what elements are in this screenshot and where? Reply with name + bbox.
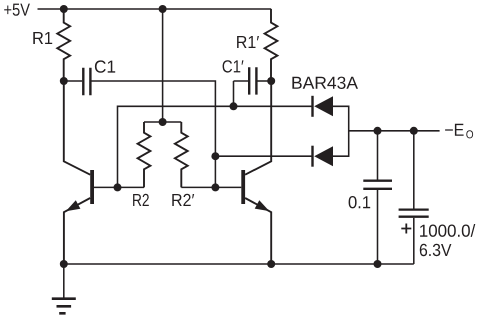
node dot output at 0.1 cap (374, 127, 382, 135)
node dot on Q2 base column at bottom diode tap (211, 152, 219, 160)
capacitor 0.1 (363, 181, 392, 189)
node dot rail at Q2 emitter (267, 260, 275, 268)
1000.0/ value label (420, 224, 475, 237)
node dot C1' tap on Q1 base net (230, 102, 238, 110)
node dot rail at 0.1 cap (374, 260, 382, 268)
R1 value label (33, 32, 52, 44)
C1 value label (95, 60, 115, 72)
node dot output at electrolytic cap (410, 127, 418, 135)
diode D1 triangle (314, 96, 333, 116)
capacitor C1' (249, 67, 256, 94)
diode D1 (top BAR43A) cathode bar (311, 96, 313, 117)
wire top +5V rail (38, 8, 272, 10)
node dot Q2 base (211, 183, 219, 191)
+5V label (4, 4, 30, 16)
resistor R1 (57, 9, 70, 81)
node dot rail at Q1 emitter / ground (60, 260, 68, 268)
ground lead (63, 264, 65, 299)
transistor Q2 base bar (241, 170, 245, 204)
node dot top of middle vertical (159, 5, 167, 13)
wire output node down to electrolytic cap (413, 131, 415, 209)
R1' value label (237, 36, 259, 48)
wire R2/R2' top bar (144, 121, 181, 123)
resistor R2 (138, 122, 151, 187)
resistor R1' (265, 9, 278, 81)
wire C1 right plate to Q2 base column (92, 81, 216, 187)
capacitor electrolytic 1000uF (399, 210, 429, 217)
wire C1' left lead down to Q1 base wire (234, 81, 249, 106)
node A dot: R1 bottom / C1 left / Q1 collector (60, 77, 68, 85)
wire electrolytic cap to ground rail corner (413, 218, 415, 264)
node dot Q1 base (114, 183, 122, 191)
resistor R2' (175, 122, 188, 187)
transistor Q2 emitter arrow (255, 200, 270, 211)
wire diode outputs combiner (333, 106, 349, 156)
wire Q2 base to R2' (181, 186, 241, 188)
R2' value label (172, 194, 194, 206)
transistor Q1 emitter arrow (66, 200, 81, 211)
diode D2 (bottom BAR43A) cathode bar (311, 146, 313, 167)
node dot top of R1 (60, 5, 68, 13)
R2 value label (133, 194, 149, 206)
wire Q1 base to R2 (94, 186, 144, 188)
wire 0.1 cap to ground rail (377, 190, 379, 264)
C1' value label (223, 60, 244, 72)
wire output node down to 0.1 cap (377, 131, 379, 180)
capacitor C1 (83, 68, 90, 95)
ground symbol (52, 299, 76, 314)
wire C1' right plate to node B (258, 80, 272, 82)
transistor Q1 emitter lead (64, 198, 90, 264)
transistor Q1 collector lead (64, 81, 90, 175)
node B dot: R1' bottom / C1' right / Q2 collector (267, 77, 275, 85)
wire bottom diode tap to D2 (215, 155, 312, 157)
0.1 value label (349, 196, 371, 208)
-Eo output label (445, 124, 464, 136)
wire middle vertical from +5V rail to R2/R2' top (162, 9, 164, 122)
transistor Q1 base bar (90, 170, 94, 204)
wire bottom ground rail (64, 263, 414, 265)
wire dot on R2/R2' top bar (159, 118, 167, 126)
wire node A to C1 left plate (64, 80, 82, 82)
BAR43A label (292, 77, 358, 89)
wire output to -Eo (349, 130, 440, 132)
plus polarity mark (401, 224, 411, 234)
transistor Q2 emitter lead (245, 198, 271, 264)
diode D2 triangle (314, 146, 333, 166)
wire Q1 base net horizontal to top diode (118, 106, 313, 187)
6.3V value label (420, 244, 452, 256)
transistor Q2 collector lead (245, 81, 271, 175)
